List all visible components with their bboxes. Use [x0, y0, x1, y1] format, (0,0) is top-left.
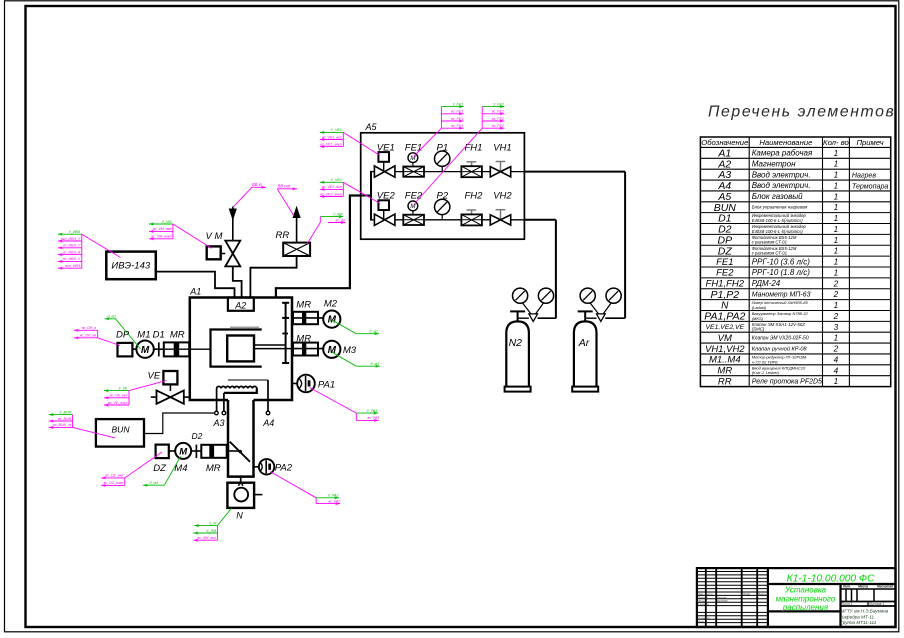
svg-text:У_RR: У_RR [333, 212, 343, 216]
svg-text:ВВ in: ВВ in [252, 182, 263, 187]
svg-text:вс_VE2_вчкл: вс_VE2_вчкл [320, 192, 342, 196]
svg-text:PA1,PA2: PA1,PA2 [704, 310, 745, 322]
svg-text:Клапан ЭМ VX20-02F-50: Клапан ЭМ VX20-02F-50 [752, 335, 809, 341]
svg-text:Манометр МП-63: Манометр МП-63 [752, 292, 811, 299]
svg-text:1: 1 [834, 203, 839, 212]
svg-text:2: 2 [833, 345, 839, 354]
svg-text:1: 1 [834, 247, 839, 256]
svg-text:вс_DP_в: вс_DP_в [82, 326, 97, 330]
svg-text:Подп.: Подп. [743, 592, 751, 596]
svg-text:Масса: Масса [858, 585, 868, 589]
svg-text:N: N [236, 511, 243, 521]
svg-text:Группа МТ11-111: Группа МТ11-111 [841, 620, 877, 625]
svg-text:VE: VE [148, 371, 161, 382]
svg-text:Листов 1: Листов 1 [868, 602, 884, 606]
svg-text:MR: MR [296, 299, 311, 310]
svg-text:У_VM: У_VM [162, 220, 172, 224]
svg-text:вс_ИВЭ_У: вс_ИВЭ_У [63, 244, 81, 248]
svg-text:A3: A3 [213, 418, 225, 428]
svg-text:ВВ out: ВВ out [278, 184, 291, 189]
svg-text:M2: M2 [324, 298, 338, 309]
svg-text:VM: VM [718, 333, 732, 344]
svg-text:Лит.: Лит. [842, 585, 851, 589]
svg-text:1: 1 [834, 225, 839, 234]
svg-text:M1..M4: M1..M4 [709, 355, 741, 366]
svg-text:Наименование: Наименование [759, 138, 812, 147]
svg-text:вс_VE_вчкл: вс_VE_вчкл [108, 401, 128, 405]
svg-text:1: 1 [834, 214, 839, 223]
svg-text:вч_FE2: вч_FE2 [492, 124, 504, 128]
svg-text:FE2: FE2 [716, 268, 734, 279]
svg-text:Ввод электрич.: Ввод электрич. [752, 181, 811, 190]
svg-text:У_ИВЭ: У_ИВЭ [69, 230, 81, 234]
svg-text:MR: MR [170, 330, 185, 341]
svg-text:A5: A5 [365, 122, 378, 132]
svg-text:RR: RR [718, 376, 732, 387]
svg-text:FE1: FE1 [405, 142, 422, 153]
svg-text:MR: MR [296, 334, 311, 345]
svg-text:P2: P2 [437, 191, 449, 202]
svg-text:вс_РА2: вс_РА2 [328, 499, 340, 503]
svg-text:У_РА1: У_РА1 [367, 409, 378, 413]
svg-text:FH1: FH1 [465, 142, 483, 153]
svg-text:1: 1 [834, 301, 839, 310]
svg-text:(Laduki): (Laduki) [752, 305, 767, 310]
svg-text:д_м3: д_м3 [371, 362, 379, 366]
svg-text:VE2: VE2 [377, 191, 396, 202]
svg-text:Лист 1: Лист 1 [840, 602, 853, 606]
svg-text:FE2: FE2 [405, 191, 423, 202]
svg-text:ч-72! 02 ТИРЕ: ч-72! 02 ТИРЕ [752, 359, 779, 364]
svg-text:Т.контр.: Т.контр. [698, 602, 710, 606]
svg-text:У_BUN: У_BUN [59, 410, 71, 414]
svg-text:MR: MR [206, 463, 221, 474]
svg-text:Магнетрон: Магнетрон [752, 159, 796, 168]
svg-text:РРГ-10 (3.6 л/с): РРГ-10 (3.6 л/с) [752, 257, 811, 266]
svg-text:Примеч: Примеч [856, 138, 883, 147]
svg-text:Нагрев: Нагрев [852, 171, 876, 179]
svg-text:вс_BUN_т: вс_BUN_т [53, 423, 71, 427]
svg-text:вс_ИВЭ_У: вс_ИВЭ_У [63, 257, 81, 261]
svg-text:(SMC): (SMC) [752, 327, 765, 332]
svg-text:Обозначение: Обозначение [701, 138, 748, 147]
svg-text:1: 1 [834, 149, 839, 158]
svg-text:вс_VE1_вкл: вс_VE1_вкл [322, 135, 342, 139]
svg-text:д_м1: д_м1 [108, 315, 116, 319]
svg-text:1: 1 [834, 377, 839, 386]
svg-text:PA1: PA1 [318, 379, 335, 390]
svg-text:вс_VM_вчкл: вс_VM_вчкл [151, 235, 171, 239]
svg-text:вс_ЛМ_вкл: вс_ЛМ_вкл [197, 536, 216, 540]
svg-text:МГТУ им.Н.Э.Баумана: МГТУ им.Н.Э.Баумана [841, 609, 889, 614]
svg-text:вс_РА1: вс_РА1 [367, 416, 379, 420]
svg-text:4: 4 [834, 355, 839, 364]
svg-text:1: 1 [834, 160, 839, 169]
svg-text:VH1,VH2: VH1,VH2 [705, 344, 745, 355]
svg-text:д_м2: д_м2 [370, 330, 378, 334]
svg-text:ИВЭ-143: ИВЭ-143 [111, 261, 150, 272]
svg-text:Дата: Дата [757, 592, 766, 596]
svg-text:Клапан ручной КР-08: Клапан ручной КР-08 [752, 345, 808, 352]
svg-text:У_VE1: У_VE1 [331, 128, 342, 132]
svg-text:вх_FE1: вх_FE1 [451, 117, 463, 121]
svg-text:Камера рабочая: Камера рабочая [752, 149, 813, 158]
svg-text:1: 1 [834, 268, 839, 277]
svg-text:VE1,VE2,VE: VE1,VE2,VE [706, 324, 745, 331]
svg-text:FE1: FE1 [716, 257, 733, 268]
svg-text:Ar: Ar [578, 337, 590, 349]
svg-text:A1: A1 [189, 287, 201, 297]
svg-text:RR: RR [276, 230, 290, 241]
svg-text:1: 1 [834, 334, 839, 343]
svg-text:вс_VE_вкл: вс_VE_вкл [110, 394, 128, 398]
svg-text:РК2006: РК2006 [717, 599, 728, 603]
svg-text:Термопара: Термопара [852, 182, 889, 190]
svg-text:MR: MR [717, 366, 732, 377]
svg-text:У_ЛМ: У_ЛМ [206, 529, 216, 533]
svg-text:с разъемом СТ-01: с разъемом СТ-01 [752, 240, 787, 245]
svg-text:У_РА2: У_РА2 [328, 494, 339, 498]
svg-text:Кол- во: Кол- во [823, 138, 850, 147]
svg-text:M1: M1 [137, 330, 150, 341]
svg-text:1: 1 [834, 192, 839, 201]
svg-text:вс_FE2: вс_FE2 [492, 110, 504, 114]
svg-text:1: 1 [834, 181, 839, 190]
svg-text:2: 2 [833, 312, 839, 321]
svg-text:V M: V M [206, 231, 223, 242]
svg-text:D1: D1 [153, 330, 165, 341]
svg-text:M: M [179, 446, 188, 457]
svg-text:У_VE: У_VE [118, 386, 128, 390]
svg-text:VE1: VE1 [377, 142, 395, 153]
svg-text:DZ: DZ [153, 463, 167, 474]
svg-text:Перечень элементов: Перечень элементов [708, 104, 895, 121]
svg-text:Масштаб: Масштаб [877, 585, 894, 589]
svg-text:Установка: Установка [784, 586, 827, 595]
svg-text:вс_BUN: вс_BUN [58, 417, 72, 421]
svg-text:Е40S8-100-6-L-5(Autonics): Е40S8-100-6-L-5(Autonics) [752, 218, 804, 223]
svg-text:вс_DZ_вкл: вс_DZ_вкл [105, 474, 123, 478]
svg-text:Реле протока PF2D5: Реле протока PF2D5 [752, 379, 822, 386]
svg-text:(MKS): (MKS) [752, 316, 764, 321]
svg-text:1: 1 [834, 236, 839, 245]
svg-text:DZ: DZ [718, 245, 733, 257]
svg-text:M3: M3 [343, 345, 357, 356]
svg-text:вкл_ИВЭ: вкл_ИВЭ [65, 264, 81, 268]
svg-text:N2: N2 [509, 337, 523, 349]
svg-text:VH1: VH1 [493, 142, 511, 153]
svg-text:РРГ-10 (1.8 л/с): РРГ-10 (1.8 л/с) [752, 268, 811, 277]
svg-text:P1,P2: P1,P2 [710, 289, 739, 301]
svg-text:A4: A4 [262, 418, 274, 428]
svg-text:У_FE2: У_FE2 [493, 102, 504, 106]
svg-text:A2: A2 [234, 300, 246, 310]
svg-text:2: 2 [833, 279, 839, 288]
svg-text:Блок газовый: Блок газовый [752, 192, 803, 201]
svg-text:1: 1 [834, 171, 839, 180]
svg-text:вх_FE2: вх_FE2 [492, 117, 504, 121]
svg-text:PA2: PA2 [275, 463, 293, 474]
svg-text:M: M [410, 203, 416, 210]
svg-text:D2: D2 [192, 431, 203, 441]
svg-text:У_FE1: У_FE1 [452, 102, 463, 106]
svg-text:FH2: FH2 [465, 191, 484, 202]
svg-text:1: 1 [834, 258, 839, 267]
svg-text:P1: P1 [437, 142, 449, 153]
svg-text:вс_ИВЭ_А: вс_ИВЭ_А [63, 250, 81, 254]
svg-text:вс_VE1_вчкл: вс_VE1_вчкл [320, 142, 342, 146]
svg-text:Кафедра МТ-11: Кафедра МТ-11 [841, 614, 875, 619]
svg-text:Ввод электрич.: Ввод электрич. [752, 170, 811, 179]
svg-text:M: M [410, 155, 416, 162]
svg-text:д_N: д_N [209, 521, 216, 525]
svg-text:3: 3 [834, 323, 839, 332]
svg-text:M: M [141, 345, 150, 356]
svg-text:вкл_ИВЭ_У: вкл_ИВЭ_У [61, 237, 81, 241]
svg-text:DP: DP [116, 330, 130, 341]
svg-text:вс_VE2_вкл: вс_VE2_вкл [322, 185, 342, 189]
svg-text:(Kurt J. Lesker): (Kurt J. Lesker) [752, 370, 780, 375]
svg-text:вс_VM_вкл: вс_VM_вкл [153, 227, 172, 231]
svg-text:распыления: распыления [782, 603, 829, 612]
svg-text:Е40S8-100-6-L-5(Autonics): Е40S8-100-6-L-5(Autonics) [752, 229, 804, 234]
svg-text:РДМ-24: РДМ-24 [752, 279, 781, 288]
svg-text:Блок управления нагревом: Блок управления нагревом [752, 205, 808, 210]
svg-text:К1-1-10.00.000 ФС: К1-1-10.00.000 ФС [787, 573, 875, 584]
svg-text:вс_DP_нв: вс_DP_нв [80, 334, 97, 338]
svg-text:VH2: VH2 [493, 191, 512, 202]
svg-text:Утв.: Утв. [698, 619, 705, 623]
svg-text:вс_FE1: вс_FE1 [451, 110, 463, 114]
svg-text:с разъемом СТ-01: с разъемом СТ-01 [752, 251, 787, 256]
svg-text:У_VE2: У_VE2 [331, 178, 342, 182]
svg-text:4: 4 [834, 366, 839, 375]
svg-text:вч_FE1: вч_FE1 [451, 124, 463, 128]
svg-text:вс_дв: вс_дв [336, 218, 346, 222]
svg-text:вс_DZ_вчкл: вс_DZ_вчкл [104, 481, 124, 485]
svg-text:д_м4: д_м4 [150, 481, 158, 485]
svg-text:2: 2 [833, 290, 839, 299]
svg-text:BUN: BUN [112, 425, 131, 435]
